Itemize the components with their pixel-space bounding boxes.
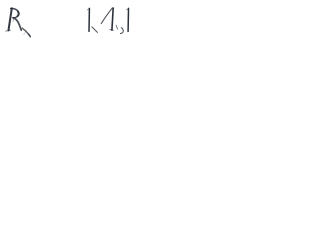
bar 1 <box>88 8 90 31</box>
subscript chi thin stroke <box>24 30 27 35</box>
bar 2 top flag <box>127 9 129 10</box>
small backslash mark after bar 1 <box>92 27 98 33</box>
bar 2 <box>127 8 129 31</box>
glyph R leg <box>14 18 21 30</box>
Lambda right foot <box>110 28 114 31</box>
subscript bottom emphasis <box>28 34 30 37</box>
glyph R stem <box>9 8 12 30</box>
glyph R bowl thick right side <box>16 12 19 17</box>
bar 1 top flag <box>88 9 90 10</box>
Lambda right stem <box>112 8 113 30</box>
subscript chi thick stroke <box>22 28 30 37</box>
glyph R leg junction curl <box>12 18 15 21</box>
Lambda left diagonal <box>101 8 112 24</box>
comma <box>121 28 124 34</box>
glyph R bowl <box>11 8 19 17</box>
glyph R foot <box>6 29 11 32</box>
right flick after Lambda <box>116 25 118 29</box>
